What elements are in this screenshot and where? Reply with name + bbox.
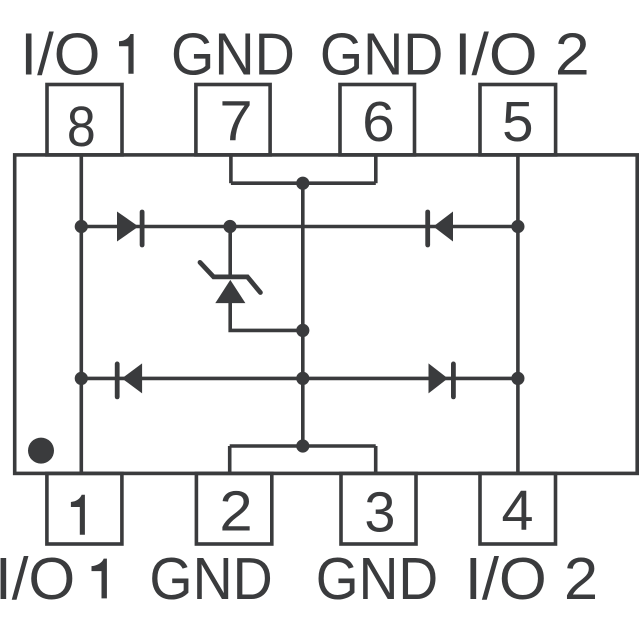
diode D1 cathode bar <box>140 212 145 245</box>
diode D4 (bottom right) triangle <box>429 363 448 393</box>
wire: top GND bus <box>231 181 376 185</box>
junction dot: zener elbow / central column <box>296 324 309 337</box>
wire: pin 2 stub <box>228 446 232 473</box>
pin 1 number <box>71 495 85 535</box>
zener Z1 cathode bar with bent ends <box>200 262 260 292</box>
wire: bottom GND bus <box>230 444 376 448</box>
wire: top diode row <box>81 225 518 229</box>
wire: pin 6 stub <box>374 155 378 183</box>
diode D1 (top left) triangle <box>117 212 139 242</box>
svg-text:8: 8 <box>67 95 96 159</box>
junction dot: left column / top row <box>75 220 88 233</box>
diode D4 cathode bar <box>451 364 456 397</box>
junction dot: central column / bottom bus <box>296 439 309 452</box>
diode D2 (top right) triangle <box>433 212 453 242</box>
svg-text:I/O 2: I/O 2 <box>465 545 598 612</box>
junction dot: central column / bottom row <box>296 372 309 385</box>
wire: I/O 1 left column (pin 8 to pin 1) <box>80 155 84 474</box>
svg-text:4: 4 <box>501 479 533 543</box>
wire: bottom diode row <box>81 377 518 381</box>
zener Z1 triangle (anode, pointing up) <box>215 280 245 303</box>
wire: pin 3 stub <box>374 446 378 473</box>
svg-text:7: 7 <box>219 90 252 153</box>
junction dot: right column / top row <box>511 220 524 233</box>
svg-text:2: 2 <box>219 480 252 543</box>
svg-text:I/O 2: I/O 2 <box>454 21 590 87</box>
IC body outline U1 <box>15 155 638 474</box>
svg-text:GND: GND <box>316 546 438 612</box>
svg-text:6: 6 <box>362 91 395 154</box>
junction dot: right column / bottom row <box>511 372 524 385</box>
wire: central GND column <box>301 183 305 446</box>
diode D3 cathode bar <box>115 364 120 397</box>
pin 5 box <box>480 85 556 155</box>
pin 6 box <box>340 85 415 155</box>
svg-text:3: 3 <box>364 480 395 544</box>
svg-text:GND: GND <box>149 547 272 613</box>
pin 7 box <box>196 85 270 155</box>
diode D3 (bottom left) triangle <box>122 363 142 393</box>
junction dot: zener / top row <box>223 220 236 233</box>
label I/O 1 (top, pin 8) <box>20 21 133 87</box>
junction dot: left column / bottom row <box>75 372 88 385</box>
label I/O 1 (bottom, pin 1) <box>0 546 107 612</box>
svg-text:I/O: I/O <box>20 21 100 87</box>
pin-1 indicator marker <box>28 438 54 464</box>
wire: I/O 2 right column (pin 5 to pin 4) <box>516 155 520 474</box>
svg-text:I/O: I/O <box>0 546 75 612</box>
pin 3 box <box>341 473 416 544</box>
svg-text:GND: GND <box>171 22 295 88</box>
pin 8 box <box>47 85 122 155</box>
wire: zener top lead from top row <box>228 227 232 277</box>
wire: zener bottom lead with elbow to central column <box>230 301 303 330</box>
pin 1 box <box>47 473 122 544</box>
diode D2 cathode bar <box>425 212 430 245</box>
svg-text:GND: GND <box>320 22 443 88</box>
pin 2 box <box>196 473 271 544</box>
junction dot: central column / top bus <box>296 177 309 190</box>
pin 4 box <box>480 473 556 544</box>
wire: pin 7 stub <box>229 155 233 183</box>
svg-text:5: 5 <box>502 91 533 154</box>
